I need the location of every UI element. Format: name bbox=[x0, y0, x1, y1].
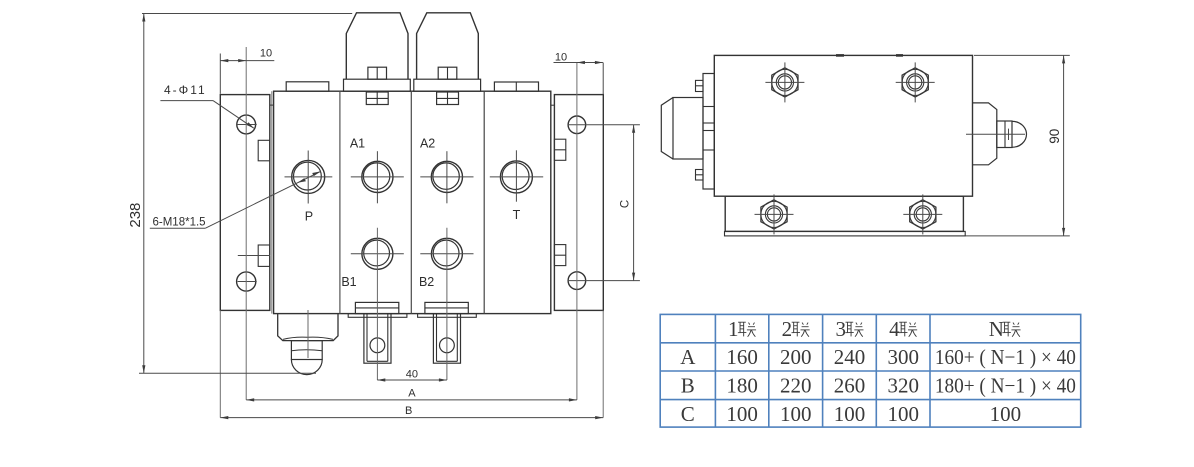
svg-text:3: 3 bbox=[835, 317, 846, 341]
svg-text:N: N bbox=[989, 317, 1004, 341]
svg-text:180+ ( N−1 ) × 40: 180+ ( N−1 ) × 40 bbox=[935, 374, 1076, 398]
svg-text:100: 100 bbox=[990, 402, 1022, 426]
svg-text:160+ ( N−1 ) × 40: 160+ ( N−1 ) × 40 bbox=[935, 345, 1076, 369]
svg-text:B: B bbox=[681, 374, 695, 398]
svg-text:180: 180 bbox=[726, 374, 758, 398]
svg-text:1: 1 bbox=[728, 317, 739, 341]
svg-text:T: T bbox=[513, 208, 521, 222]
svg-text:160: 160 bbox=[726, 345, 758, 369]
svg-text:238: 238 bbox=[127, 203, 144, 228]
svg-text:4-Φ11: 4-Φ11 bbox=[164, 83, 207, 97]
svg-text:100: 100 bbox=[834, 402, 866, 426]
svg-text:6-M18*1.5: 6-M18*1.5 bbox=[153, 216, 206, 228]
svg-text:A: A bbox=[408, 387, 416, 399]
svg-text:260: 260 bbox=[834, 374, 866, 398]
svg-text:100: 100 bbox=[726, 402, 758, 426]
svg-text:200: 200 bbox=[780, 345, 812, 369]
svg-text:A: A bbox=[680, 345, 696, 369]
svg-text:B2: B2 bbox=[419, 275, 434, 289]
svg-text:240: 240 bbox=[834, 345, 866, 369]
svg-text:A2: A2 bbox=[420, 136, 435, 150]
svg-text:100: 100 bbox=[887, 402, 919, 426]
svg-text:90: 90 bbox=[1047, 129, 1062, 144]
svg-text:B1: B1 bbox=[341, 275, 356, 289]
svg-text:A1: A1 bbox=[350, 136, 365, 150]
svg-text:320: 320 bbox=[887, 374, 919, 398]
svg-text:4: 4 bbox=[889, 317, 900, 341]
svg-text:40: 40 bbox=[406, 368, 418, 380]
svg-text:C: C bbox=[681, 402, 695, 426]
svg-text:10: 10 bbox=[260, 48, 272, 60]
svg-text:P: P bbox=[305, 209, 313, 223]
svg-text:B: B bbox=[405, 405, 412, 417]
svg-text:10: 10 bbox=[555, 52, 567, 64]
svg-text:100: 100 bbox=[780, 402, 812, 426]
svg-text:220: 220 bbox=[780, 374, 812, 398]
svg-text:2: 2 bbox=[782, 317, 793, 341]
svg-text:300: 300 bbox=[887, 345, 919, 369]
svg-text:C: C bbox=[619, 200, 631, 208]
